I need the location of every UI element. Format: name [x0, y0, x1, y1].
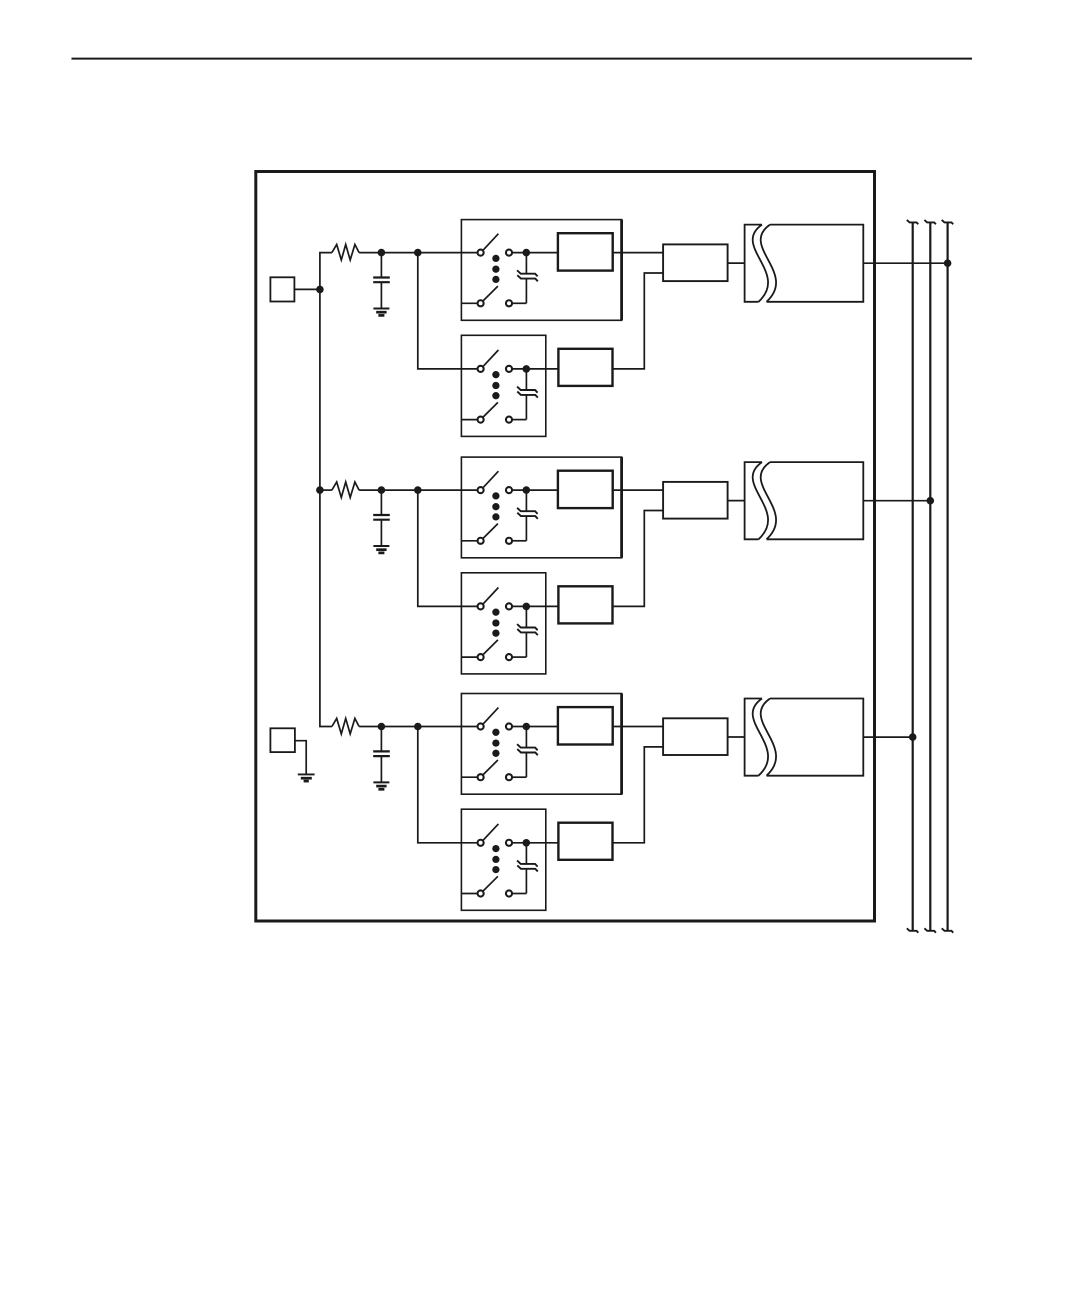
switch bank SW2A box right edge emphasis: [620, 457, 623, 558]
switch SW2A bottom pole terminal: [478, 538, 484, 544]
trimmer capacitor CT3B: [525, 843, 527, 864]
switch bank SW2B box: [461, 573, 545, 674]
capacitor C1: [380, 253, 382, 278]
wire A1 to mixer block M1: [613, 252, 663, 254]
switch SW2A top pole terminal: [478, 487, 484, 493]
ellipsis dots SW1A: [492, 255, 499, 262]
switch SW1A top throw terminal: [506, 250, 512, 256]
switch SW2B bottom lever: [483, 640, 498, 655]
wire R1 output to switch bank SW1A: [359, 252, 477, 254]
bus line 2 bottom break mark: [924, 928, 936, 933]
wire B3 to mixer block M3: [613, 747, 664, 843]
switch SW3B top lever: [483, 824, 498, 840]
block tuning stage B3: [558, 823, 612, 860]
bus line 3 top break mark: [942, 220, 954, 224]
wire CT3B return: [512, 893, 526, 895]
node SW1A trimmer junction: [523, 249, 531, 257]
resonator X1 tear curve 1: [753, 225, 768, 302]
resonator X3 body: [767, 699, 864, 776]
resonator X2 left tab: [745, 462, 762, 539]
switch SW3A top lever: [483, 708, 498, 724]
resonator X1 body: [767, 225, 864, 302]
pin P1 input pad: [270, 277, 294, 301]
wire X2 output to bus: [863, 500, 930, 502]
wire output bus line 2: [929, 223, 931, 932]
ground C3 ground symbol: [373, 781, 389, 783]
wire output bus line 3: [946, 223, 948, 932]
switch SW1A bottom lever: [483, 286, 498, 301]
ellipsis dots SW2A: [492, 492, 499, 499]
switch SW3B bottom pole terminal: [478, 890, 484, 896]
switch SW1B top lever: [483, 350, 498, 366]
trimmer capacitor CT2A: [525, 490, 527, 511]
switch SW2B top throw terminal: [506, 603, 512, 609]
wire A3 to mixer block M3: [613, 726, 663, 728]
wire SW2B output: [512, 605, 558, 607]
switch SW1B top throw terminal: [506, 366, 512, 372]
node bus junction channel 1: [944, 259, 952, 267]
node SW2B trimmer junction: [523, 603, 531, 611]
ground pin P2 ground symbol: [298, 773, 315, 775]
switch SW1A bottom throw terminal: [506, 300, 512, 306]
node branch junction channel 2: [414, 486, 422, 494]
node SW1B trimmer junction: [523, 365, 531, 373]
wire R2 output to switch bank SW2A: [359, 489, 477, 491]
switch SW2B bottom pole terminal: [478, 654, 484, 660]
switch SW2B top lever: [483, 588, 498, 604]
node rail-to-channel-2 junction: [316, 486, 324, 494]
wire SW3A bottom pole lead: [461, 776, 477, 778]
ellipsis dots SW1B: [492, 371, 499, 378]
capacitor C3: [380, 727, 382, 752]
switch SW3B top pole terminal: [478, 840, 484, 846]
switch SW1A top lever: [483, 234, 498, 250]
wire SW2A output: [512, 489, 558, 491]
switch bank SW3B box: [461, 809, 545, 910]
node branch junction channel 3: [414, 723, 422, 731]
switch SW3B bottom throw terminal: [506, 890, 512, 896]
wire B2 to mixer block M2: [613, 511, 664, 607]
bus line 1 top break mark: [907, 220, 919, 224]
node bus junction channel 2: [927, 497, 935, 505]
resonator X3 left tab: [745, 699, 762, 776]
wire CT2A return: [512, 540, 526, 542]
wire A2 to mixer block M2: [613, 489, 663, 491]
switch SW1B bottom pole terminal: [478, 417, 484, 423]
node SW3A trimmer junction: [523, 723, 531, 731]
switch SW1A top pole terminal: [478, 250, 484, 256]
ellipsis dots SW3A: [492, 729, 499, 736]
wire SW3A output: [512, 726, 558, 728]
wire SW3B bottom pole lead: [461, 893, 477, 895]
switch SW2B top pole terminal: [478, 603, 484, 609]
wire SW1B bottom pole lead: [461, 419, 477, 421]
switch bank SW3A box right edge emphasis: [620, 694, 623, 795]
ellipsis dots SW2B: [492, 609, 499, 616]
wire X1 output to bus: [863, 262, 947, 264]
bus line 3 bottom break mark: [942, 928, 954, 933]
resonator X2 tear curve 2: [761, 462, 776, 539]
block mixer M3: [663, 718, 728, 755]
resonator X3 tear curve 2: [761, 699, 776, 776]
ellipsis dots SW3B: [492, 845, 499, 852]
block tuning stage A1 (inside SW1A box): [558, 233, 613, 270]
trimmer capacitor CT1B: [525, 369, 527, 390]
switch SW3A bottom pole terminal: [478, 774, 484, 780]
block tuning stage B1: [558, 349, 612, 386]
wire CT3A return: [512, 776, 526, 778]
switch bank SW1A box right edge emphasis: [620, 220, 623, 321]
wire pin P1 to rail: [294, 288, 320, 290]
wire branch to lower switch bank SW2B: [418, 490, 478, 606]
wire X3 output to bus: [863, 736, 912, 738]
switch SW3A top throw terminal: [506, 723, 512, 729]
node branch junction channel 1: [414, 249, 422, 257]
switch SW3A bottom lever: [483, 760, 498, 775]
wire SW2A bottom pole lead: [461, 540, 477, 542]
wire output bus line 1: [912, 223, 914, 932]
resistor R1: [332, 245, 359, 261]
switch SW2A bottom throw terminal: [506, 538, 512, 544]
wire SW3B output: [512, 842, 558, 844]
block mixer M1: [663, 244, 728, 281]
switch SW2A top throw terminal: [506, 487, 512, 493]
capacitor C2: [380, 490, 382, 515]
wire B1 to mixer block M1: [613, 273, 664, 369]
wire branch to lower switch bank SW1B: [418, 253, 478, 369]
wire branch to lower switch bank SW3B: [418, 727, 478, 843]
wire SW1B output: [512, 368, 558, 370]
pin P2 grounded pad: [270, 728, 295, 752]
wire M3 to resonator X3: [728, 736, 745, 738]
wire left input rail: [320, 253, 332, 727]
bus line 2 top break mark: [924, 220, 936, 224]
node pin P1 junction: [316, 286, 324, 294]
switch SW3A top pole terminal: [478, 723, 484, 729]
block tuning stage A3 (inside SW3A box): [558, 707, 613, 744]
wire SW1A bottom pole lead: [461, 302, 477, 304]
trimmer capacitor CT2B: [525, 606, 527, 627]
resistor R3: [332, 718, 359, 734]
switch SW3B top throw terminal: [506, 840, 512, 846]
switch SW2B bottom throw terminal: [506, 654, 512, 660]
resonator X1 left tab: [745, 225, 762, 302]
wire R3 output to switch bank SW3A: [359, 726, 477, 728]
block mixer M2: [663, 482, 728, 519]
trimmer capacitor CT1A: [525, 253, 527, 274]
node C1 junction: [378, 249, 386, 257]
node C3 junction: [378, 723, 386, 731]
wire pin P2 to ground: [295, 741, 306, 775]
wire M1 to resonator X1: [728, 262, 745, 264]
switch SW1A bottom pole terminal: [478, 300, 484, 306]
wire SW2B bottom pole lead: [461, 656, 477, 658]
switch SW1B top pole terminal: [478, 366, 484, 372]
switch SW2A bottom lever: [483, 524, 498, 539]
wire CT2B return: [512, 656, 526, 658]
ground C1 ground symbol: [373, 308, 389, 310]
outer block boundary box: [256, 172, 875, 922]
bus line 1 bottom break mark: [907, 928, 919, 933]
wire M2 to resonator X2: [728, 500, 745, 502]
node C2 junction: [378, 486, 386, 494]
resonator X2 body: [767, 462, 864, 539]
wire middle channel tap: [320, 489, 332, 491]
switch bank SW3A box: [461, 694, 621, 795]
wire SW1A output: [512, 252, 558, 254]
switch bank SW1A box: [461, 220, 621, 321]
switch SW3A bottom throw terminal: [506, 774, 512, 780]
resistor R2: [332, 482, 359, 498]
block tuning stage A2 (inside SW2A box): [558, 471, 613, 508]
switch SW3B bottom lever: [483, 876, 498, 891]
wire CT1B return: [512, 419, 526, 421]
switch SW1B bottom lever: [483, 402, 498, 417]
wire CT1A return: [512, 302, 526, 304]
block tuning stage B2: [558, 586, 612, 623]
header horizontal rule: [72, 58, 973, 60]
trimmer capacitor CT3A: [525, 727, 527, 748]
switch bank SW1B box: [461, 335, 545, 436]
switch SW2A top lever: [483, 471, 498, 487]
node SW2A trimmer junction: [523, 486, 531, 494]
resonator X2 tear curve 1: [753, 462, 768, 539]
switch SW1B bottom throw terminal: [506, 417, 512, 423]
switch bank SW2A box: [461, 457, 621, 558]
node bus junction channel 3: [909, 733, 917, 741]
node SW3B trimmer junction: [523, 839, 531, 847]
ground C2 ground symbol: [373, 545, 389, 547]
resonator X3 tear curve 1: [753, 699, 768, 776]
resonator X1 tear curve 2: [761, 225, 776, 302]
